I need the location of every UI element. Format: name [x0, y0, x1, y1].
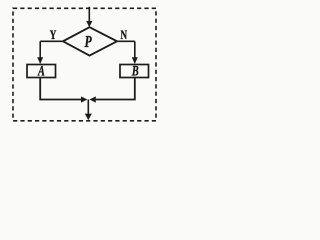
wire: junction to bottom exit	[87, 100, 89, 115]
arrowhead into diamond P	[86, 21, 92, 27]
wire: A to junction	[40, 78, 81, 100]
wire: N branch vertical into B	[134, 41, 136, 58]
process box B	[120, 65, 149, 78]
svg-text:P: P	[85, 33, 92, 52]
svg-text:A: A	[37, 63, 45, 79]
svg-text:Y: Y	[50, 28, 57, 42]
svg-text:N: N	[121, 28, 128, 42]
arrowhead at junction from B (pointing left)	[89, 96, 95, 102]
arrowhead into box A	[37, 57, 43, 64]
arrowhead at junction from A (pointing right)	[81, 96, 87, 102]
wire: Y branch vertical into A	[39, 41, 41, 58]
wire: entry arrow into diamond P	[88, 7, 90, 22]
wire: Y branch horizontal	[40, 40, 63, 42]
dashed frame border	[13, 8, 156, 121]
svg-text:B: B	[131, 63, 139, 79]
decision diamond P	[63, 27, 117, 55]
arrowhead bottom exit	[85, 114, 92, 121]
process box A	[27, 65, 56, 78]
wire: B to junction	[96, 78, 135, 100]
arrowhead into box B	[132, 57, 138, 64]
wire: N branch horizontal	[117, 40, 135, 42]
